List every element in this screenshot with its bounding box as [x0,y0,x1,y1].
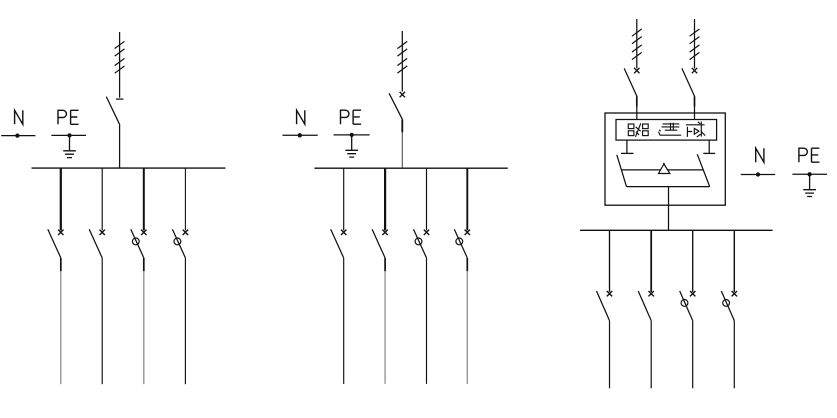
feeder 1.4 operator circle [174,238,181,245]
feeder 3.3 operator circle [681,300,688,307]
cable marks incoming A [632,29,642,60]
label PE panel 2 [341,110,362,124]
feeder 1.1 wire black segment [60,258,62,271]
label N panel 2 [297,110,305,124]
feeder 2.4 stub (bold) [466,168,468,230]
label text char 2 (mirrored CJK) [659,123,682,136]
feeder 2.2 stub (bold) [384,168,386,230]
wire QF2 to busbar 2 [401,132,403,168]
breaker QB blade [682,68,695,96]
feeder 3.4 wire [733,321,735,389]
feeder 3.1 wire [609,321,611,389]
feeder 1.1 contact x [58,230,63,235]
ground symbol panel 3 [803,174,816,196]
feeder 1.2 wire [101,258,103,384]
feeder 1.4 stub [184,168,186,230]
node PE panel 1 [51,134,86,136]
feeder 2.3 wire [426,258,428,384]
ATS fixed contact left [626,140,628,153]
busbar 3 [580,229,773,231]
busbar 2 [314,167,507,169]
feeder 1.3 switch blade [131,229,144,258]
feeder 2.2 wire gray [384,271,386,384]
wire QF2 black segment [401,119,403,132]
feeder 1.1 switch blade [48,229,61,258]
breaker QF2 blade [389,93,402,119]
feeder 3.3 stub [692,230,694,292]
ATS changeover mechanism right arm [697,154,709,186]
wire QB black segment [694,96,696,106]
feeder 3.1 switch blade [597,291,610,321]
label PE panel 1 [58,110,79,124]
wire incoming supply B panel 3 [694,19,696,68]
feeder 2.2 wire black segment [384,258,386,271]
feeder 3.4 operator circle [723,300,730,307]
feeder 3.2 wire [650,321,652,389]
feeder 1.2 contact x [100,230,105,235]
ATS changeover mechanism left arm [617,155,627,187]
feeder 1.3 contact x [141,230,146,235]
feeder 2.1 wire [343,258,345,384]
feeder 1.4 contact x [183,230,188,235]
feeder 2.4 switch blade [454,229,467,258]
ATS pivot triangle [659,164,670,174]
feeder 2.3 switch blade [414,229,427,258]
feeder 3.2 switch blade [638,291,651,321]
breaker QA contact x [634,68,639,73]
breaker QA blade [624,68,637,96]
ATS changeover crossbar [621,169,703,171]
feeder 2.3 stub [426,168,428,230]
node N panel 3 [741,174,776,176]
feeder 3.4 stub [733,230,735,292]
wire incoming supply panel 1 [119,32,121,98]
wire QA to ATS box [636,107,638,120]
feeder 3.1 stub [609,230,611,292]
wire ATS to busbar 3 [668,187,670,231]
feeder 2.2 switch blade [372,229,385,258]
feeder 1.4 switch blade [172,229,185,258]
feeder 1.1 wire gray [60,271,62,384]
cable marks incoming panel 2 [397,41,407,73]
feeder 1.4 wire [184,258,186,384]
feeder 1.2 switch blade [89,229,102,258]
label text char 3 (mirrored CJK) [686,122,705,138]
feeder 3.4 switch blade [721,291,734,321]
feeder 3.3 switch blade [680,291,693,321]
wire QS1 to busbar 1 [119,124,121,168]
ground symbol panel 1 [63,135,76,157]
breaker QF2 contact x [400,92,405,97]
feeder 3.1 contact x [607,291,612,296]
feeder 2.4 contact x [465,230,470,235]
feeder 3.3 contact x [690,291,695,296]
ATS changeover base [627,186,710,188]
feeder 1.3 wire black segment [143,258,145,271]
feeder 3.3 wire [692,321,694,389]
cable marks incoming B [690,29,700,60]
wire QA black segment [636,96,638,106]
feeder 1.3 wire gray [143,271,145,384]
label N panel 1 [15,110,23,124]
disconnect switch QS1 fixed contact [116,98,123,100]
feeder 1.3 operator circle [132,238,139,245]
feeder 1.2 stub [101,168,103,230]
feeder 2.4 operator circle [456,238,463,245]
feeder 2.1 contact x [341,230,346,235]
wire incoming supply panel 2 [401,31,403,92]
feeder 2.3 contact x [424,230,429,235]
ground symbol panel 2 [345,135,358,157]
busbar 1 [32,167,226,169]
label PE panel 3 [799,148,820,162]
node N panel 1 [1,135,35,137]
wire incoming supply A panel 3 [636,19,638,68]
feeder 2.3 operator circle [415,238,422,245]
wire QB to ATS box [694,107,696,120]
feeder 2.2 contact x [382,230,387,235]
ATS label box [616,120,717,141]
node N panel 2 [283,134,318,136]
feeder 2.4 wire gray [466,271,468,384]
node PE panel 3 [792,173,827,175]
cable marks incoming panel 1 [115,41,125,73]
feeder 2.1 switch blade [331,229,344,258]
feeder 1.3 stub (bold) [143,168,145,230]
feeder 1.1 stub (bold) [60,168,62,230]
feeder 2.4 wire black segment [466,258,468,271]
ATS fixed contact right [708,140,710,153]
feeder 3.4 contact x [732,291,737,296]
disconnect switch QS1 blade [106,97,119,125]
feeder 3.2 contact x [649,291,654,296]
feeder 3.2 stub (bold) [650,230,652,292]
feeder 2.1 stub [343,168,345,230]
label N panel 3 [756,148,764,162]
breaker QB contact x [692,68,697,73]
ATS enclosure box [605,113,725,205]
node PE panel 2 [334,134,370,136]
label text char 1 (mirrored CJK) [628,123,648,137]
